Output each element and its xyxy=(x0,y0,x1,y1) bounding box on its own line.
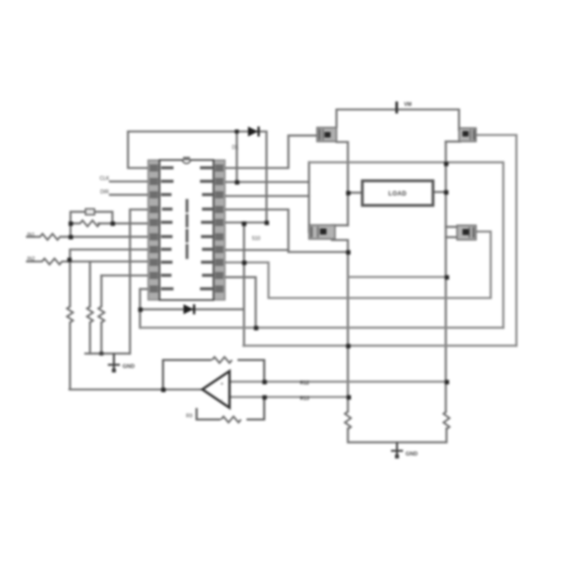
svg-text:DIR: DIR xyxy=(100,190,109,196)
svg-text:VM: VM xyxy=(404,102,412,108)
svg-text:R13: R13 xyxy=(300,396,309,402)
svg-text:+: + xyxy=(221,382,224,388)
svg-text:LOAD: LOAD xyxy=(388,192,407,198)
svg-text:510: 510 xyxy=(252,236,261,242)
svg-text:GND: GND xyxy=(123,364,135,370)
svg-text:IN1: IN1 xyxy=(27,233,35,239)
svg-text:D1: D1 xyxy=(232,145,239,151)
svg-text:GND: GND xyxy=(406,452,418,458)
svg-text:R12: R12 xyxy=(300,381,309,387)
svg-text:R9: R9 xyxy=(186,413,193,419)
svg-text:IN2: IN2 xyxy=(27,257,35,263)
svg-text:CLK: CLK xyxy=(100,176,110,182)
